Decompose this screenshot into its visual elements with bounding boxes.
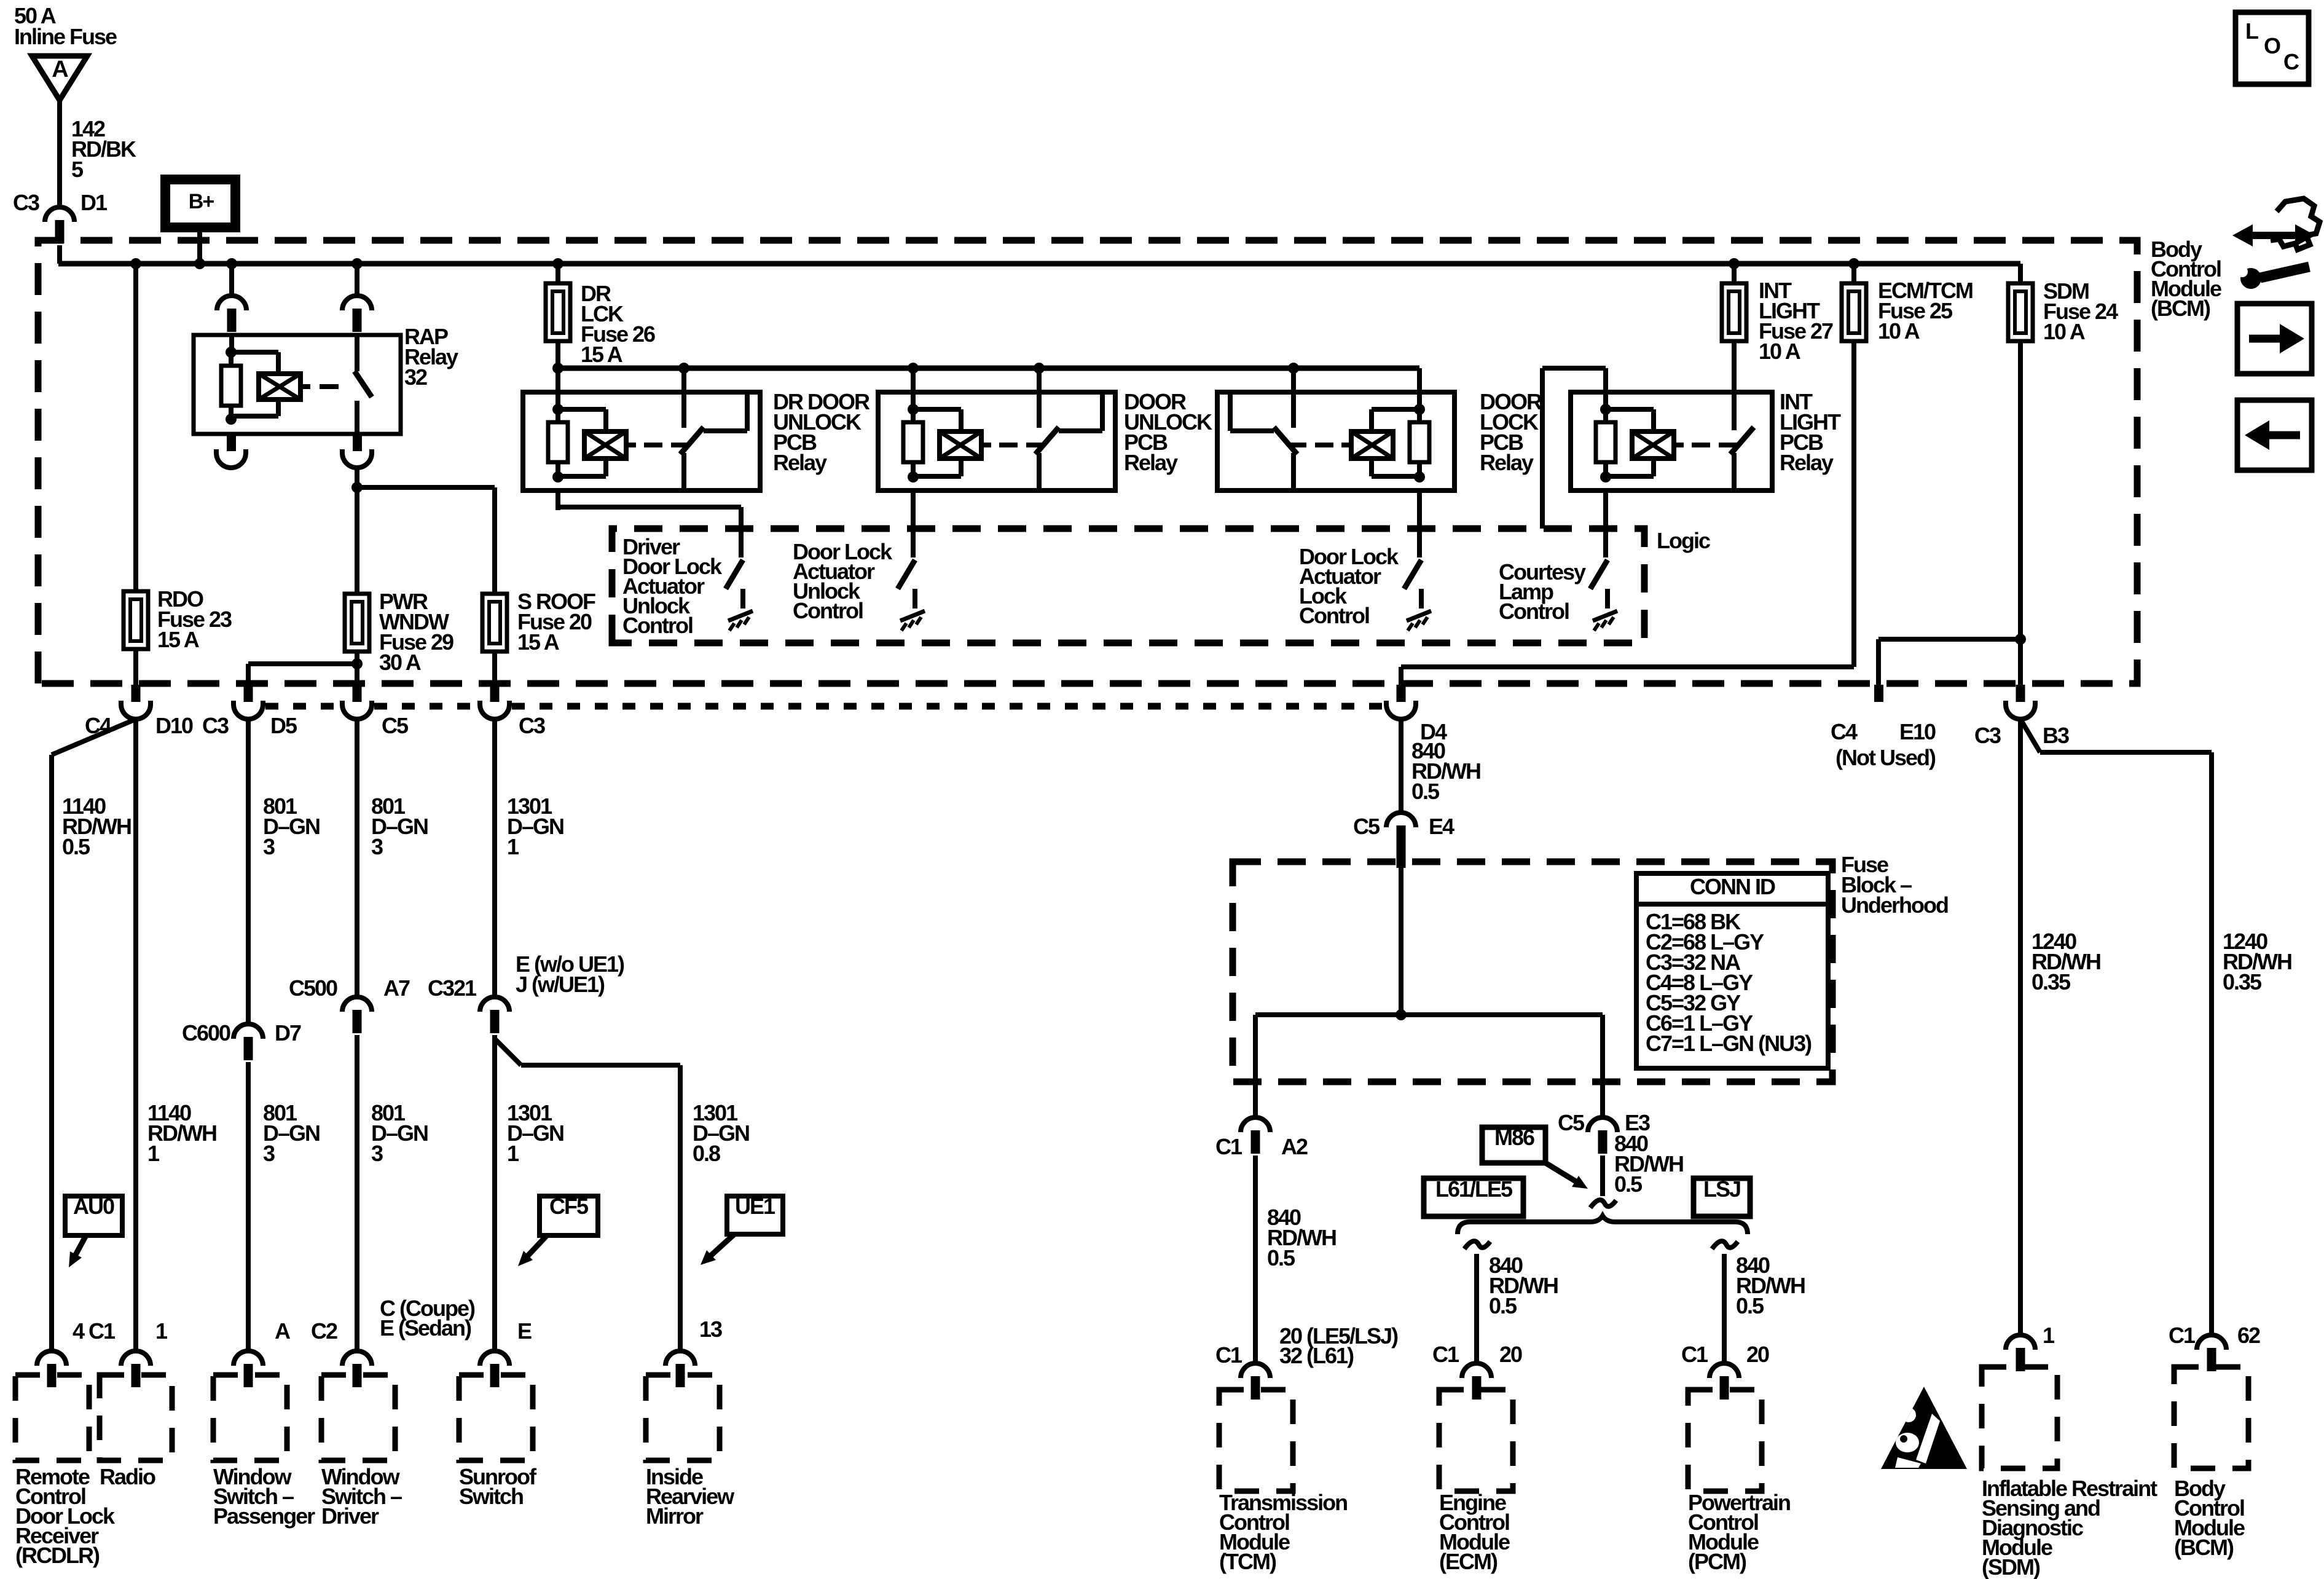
svg-text:Logic: Logic bbox=[1657, 528, 1710, 553]
svg-text:Passenger: Passenger bbox=[213, 1503, 315, 1529]
svg-text:C1: C1 bbox=[2169, 1323, 2196, 1348]
option AU0 bbox=[65, 1196, 122, 1235]
svg-text:E (Sedan): E (Sedan) bbox=[380, 1315, 471, 1341]
wire bus corner to fuse24 bbox=[2018, 264, 2023, 686]
wire window driver bbox=[355, 719, 359, 997]
module sunroof switch bbox=[480, 1351, 509, 1366]
svg-text:C500: C500 bbox=[289, 975, 337, 1001]
svg-text:0.5: 0.5 bbox=[62, 834, 90, 859]
fuse RDO 23 bbox=[124, 591, 148, 649]
wire fuse27 feed bbox=[1732, 264, 1737, 430]
relay DOOR UNLOCK PCB bbox=[878, 392, 1115, 490]
wire DR LCK feed bbox=[555, 264, 560, 368]
svg-text:D10: D10 bbox=[155, 713, 193, 738]
svg-text:E10: E10 bbox=[1899, 719, 1936, 744]
connector C3-D1 bbox=[45, 207, 74, 222]
svg-text:10 A: 10 A bbox=[2043, 319, 2086, 344]
svg-text:1: 1 bbox=[507, 1141, 519, 1166]
module ECM bbox=[1462, 1363, 1491, 1378]
wire relay4 coil feed U bbox=[1540, 368, 1545, 529]
brace split bbox=[1458, 1216, 1748, 1234]
svg-text:A7: A7 bbox=[383, 975, 410, 1001]
wire to ECM bbox=[1474, 1254, 1479, 1363]
wire to TCM bbox=[1253, 1156, 1258, 1363]
wire fused feed line bbox=[558, 366, 1419, 371]
svg-text:(BCM): (BCM) bbox=[2151, 296, 2210, 321]
svg-text:C600: C600 bbox=[182, 1020, 230, 1045]
svg-text:E: E bbox=[517, 1318, 532, 1344]
engine option L61/LE5 bbox=[1424, 1178, 1523, 1216]
wire E3 down bbox=[1600, 1156, 1605, 1196]
svg-text:13: 13 bbox=[699, 1317, 722, 1342]
BCM module dashed box bbox=[38, 240, 2137, 683]
svg-text:Underhood: Underhood bbox=[1841, 892, 1948, 918]
svg-text:L61/LE5: L61/LE5 bbox=[1435, 1176, 1513, 1202]
module RCDLR bbox=[37, 1351, 66, 1366]
svg-text:A: A bbox=[52, 57, 68, 82]
svg-text:Control: Control bbox=[1499, 599, 1569, 624]
svg-text:0.8: 0.8 bbox=[693, 1141, 720, 1166]
wire mirror branch bbox=[495, 1039, 521, 1065]
wire window passenger bbox=[246, 719, 251, 1024]
svg-text:(TCM): (TCM) bbox=[1219, 1549, 1276, 1574]
svg-text:C4: C4 bbox=[1831, 719, 1858, 744]
wire fuse25 out bbox=[1851, 264, 1856, 667]
node fuse block split bbox=[1396, 1009, 1407, 1020]
connector C5/E3 bbox=[1588, 1117, 1617, 1132]
connector D4 bbox=[1397, 685, 1406, 702]
wire PWR WNDW out bbox=[248, 661, 357, 666]
svg-text:C2: C2 bbox=[311, 1318, 337, 1344]
fuse DR LCK 26 bbox=[546, 283, 570, 341]
connector C1/A2 bbox=[1241, 1117, 1270, 1132]
module TCM bbox=[1241, 1363, 1270, 1378]
LOC reference box bbox=[2236, 12, 2309, 84]
svg-text:O: O bbox=[2264, 33, 2280, 58]
svg-text:B3: B3 bbox=[2043, 723, 2069, 748]
svg-text:62: 62 bbox=[2237, 1323, 2260, 1348]
junction dots fused line bbox=[552, 363, 563, 374]
svg-text:Switch: Switch bbox=[459, 1484, 523, 1509]
svg-text:C3: C3 bbox=[202, 713, 229, 738]
wire relay3 coil feed corner bbox=[1417, 368, 1422, 409]
wire into fuse block bbox=[1397, 826, 1406, 868]
svg-text:1: 1 bbox=[507, 834, 519, 859]
connector C5 window driver bbox=[353, 685, 362, 702]
wire to BCM bottom bbox=[2020, 719, 2040, 752]
fuse ECM/TCM 25 bbox=[1842, 283, 1866, 341]
svg-text:1: 1 bbox=[147, 1141, 160, 1166]
svg-text:Relay: Relay bbox=[1780, 450, 1834, 475]
engine option LSJ bbox=[1694, 1178, 1750, 1216]
svg-text:L: L bbox=[2245, 18, 2258, 44]
wire 142 RD/BK from fuse A bbox=[57, 100, 62, 205]
svg-text:10 A: 10 A bbox=[1878, 318, 1920, 344]
wire B+ stub bbox=[197, 227, 202, 264]
svg-text:Mirror: Mirror bbox=[646, 1503, 704, 1529]
svg-text:D1: D1 bbox=[80, 190, 108, 215]
svg-text:C1: C1 bbox=[1432, 1342, 1459, 1367]
wire sunroof lower bbox=[492, 1035, 497, 1351]
wire RDO feed bbox=[133, 264, 138, 685]
svg-text:(BCM): (BCM) bbox=[2174, 1535, 2234, 1560]
svg-text:C1: C1 bbox=[1681, 1342, 1708, 1367]
svg-text:CONN ID: CONN ID bbox=[1690, 874, 1775, 899]
RAP relay 32 box bbox=[194, 335, 401, 434]
RAP relay linkage bbox=[320, 384, 339, 389]
svg-text:0.35: 0.35 bbox=[2223, 969, 2262, 994]
svg-text:Radio: Radio bbox=[100, 1464, 155, 1489]
module BCM bottom bbox=[2197, 1335, 2226, 1350]
svg-text:A: A bbox=[275, 1318, 291, 1344]
splice M86 bbox=[1482, 1127, 1545, 1163]
svg-text:J (w/UE1): J (w/UE1) bbox=[516, 972, 605, 997]
module PCM bbox=[1710, 1363, 1739, 1378]
svg-text:C1: C1 bbox=[1215, 1342, 1242, 1368]
module inside rearview mirror bbox=[665, 1351, 695, 1366]
arrow next box bbox=[2237, 304, 2312, 374]
svg-text:(ECM): (ECM) bbox=[1439, 1549, 1498, 1574]
svg-text:Relay: Relay bbox=[1124, 450, 1178, 475]
logic switch courtesy bbox=[1590, 560, 1608, 589]
svg-text:C: C bbox=[2283, 49, 2299, 74]
module SDM bbox=[2006, 1335, 2035, 1350]
svg-text:20: 20 bbox=[1746, 1342, 1769, 1367]
svg-text:AU0: AU0 bbox=[73, 1194, 114, 1219]
Logic dashed box bbox=[612, 529, 1644, 643]
wire sunroof upper bbox=[492, 719, 497, 997]
wire break ECM branch bbox=[1464, 1241, 1490, 1249]
svg-text:(Not Used): (Not Used) bbox=[1835, 745, 1936, 770]
logic switch unlock bbox=[898, 560, 915, 589]
svg-text:15 A: 15 A bbox=[157, 627, 200, 652]
svg-text:C321: C321 bbox=[428, 975, 477, 1001]
logic switch driver unlock bbox=[726, 560, 743, 589]
svg-text:3: 3 bbox=[263, 1141, 275, 1166]
fuse INT LIGHT 27 bbox=[1722, 283, 1746, 341]
relay INT LIGHT PCB bbox=[1571, 392, 1772, 490]
svg-text:C7=1 L–GN (NU3): C7=1 L–GN (NU3) bbox=[1646, 1031, 1812, 1056]
svg-text:Control: Control bbox=[1299, 603, 1369, 628]
svg-text:LSJ: LSJ bbox=[1703, 1176, 1740, 1202]
svg-text:3: 3 bbox=[371, 1141, 383, 1166]
BCM connector face dotted line bbox=[265, 703, 340, 710]
fuse S ROOF 20 bbox=[482, 594, 507, 652]
svg-text:C3: C3 bbox=[13, 190, 39, 215]
svg-text:Relay: Relay bbox=[773, 450, 827, 475]
wire D4 to C5/E4 bbox=[1399, 719, 1403, 813]
svg-text:3: 3 bbox=[263, 834, 275, 859]
svg-text:(RCDLR): (RCDLR) bbox=[15, 1543, 100, 1568]
svg-text:32: 32 bbox=[404, 364, 427, 390]
svg-text:(PCM): (PCM) bbox=[1688, 1549, 1746, 1574]
wire RAP switch feed bbox=[355, 264, 359, 296]
svg-text:UE1: UE1 bbox=[735, 1194, 775, 1219]
svg-text:Control: Control bbox=[793, 598, 863, 623]
svg-text:3: 3 bbox=[371, 834, 383, 859]
B+ symbol bbox=[165, 179, 235, 227]
svg-text:C5: C5 bbox=[382, 713, 409, 738]
connector C600/D7 bbox=[234, 1024, 263, 1039]
svg-text:C1: C1 bbox=[1215, 1134, 1242, 1159]
RAP switch output pin bbox=[353, 435, 362, 451]
svg-text:0.35: 0.35 bbox=[2032, 969, 2071, 994]
svg-text:CF5: CF5 bbox=[549, 1194, 589, 1219]
svg-text:D7: D7 bbox=[275, 1020, 301, 1045]
svg-text:1: 1 bbox=[2043, 1323, 2055, 1348]
RAP coil return pin bbox=[227, 435, 236, 451]
svg-text:0.5: 0.5 bbox=[1489, 1293, 1517, 1318]
connector C3 sunroof bbox=[490, 685, 500, 702]
node RAP output split bbox=[351, 482, 363, 493]
connector C5/E4 bbox=[1386, 813, 1416, 827]
wire radio branch bbox=[133, 719, 138, 1351]
wire break E3 bbox=[1590, 1200, 1616, 1208]
svg-text:1: 1 bbox=[155, 1318, 168, 1344]
module window switch driver bbox=[342, 1351, 372, 1366]
workshop icon bbox=[2271, 199, 2320, 250]
svg-text:(SDM): (SDM) bbox=[1982, 1554, 2040, 1579]
pin E10 not used bbox=[1874, 685, 1883, 702]
svg-text:Control: Control bbox=[622, 613, 693, 638]
wire window driver lower bbox=[355, 1035, 359, 1351]
fuse SDM 24 bbox=[2008, 283, 2033, 341]
option UE1 bbox=[727, 1196, 783, 1234]
relay DR DOOR UNLOCK PCB bbox=[523, 392, 760, 490]
connector C500/A7 bbox=[342, 997, 372, 1012]
RAP relay coil resistor bbox=[226, 347, 237, 358]
RAP relay switch bbox=[355, 369, 359, 371]
svg-text:Relay: Relay bbox=[1480, 450, 1534, 475]
svg-text:20: 20 bbox=[1499, 1342, 1522, 1367]
svg-text:E4: E4 bbox=[1429, 814, 1454, 839]
svg-text:C5: C5 bbox=[1353, 814, 1380, 839]
junction dots on bus bbox=[130, 258, 141, 269]
option CF5 bbox=[540, 1196, 598, 1235]
svg-text:0.5: 0.5 bbox=[1736, 1293, 1764, 1318]
svg-text:0.5: 0.5 bbox=[1267, 1245, 1295, 1270]
svg-text:M86: M86 bbox=[1494, 1125, 1534, 1150]
svg-text:D5: D5 bbox=[270, 713, 297, 738]
svg-text:15 A: 15 A bbox=[581, 342, 623, 367]
connector C4/D10 bbox=[132, 685, 141, 702]
fuse PWR WNDW 29 bbox=[345, 594, 369, 652]
svg-text:Inline Fuse: Inline Fuse bbox=[14, 24, 117, 49]
relay DOOR LOCK PCB bbox=[1217, 392, 1454, 490]
wire relay1 coil return to logic bbox=[558, 505, 741, 510]
svg-text:Driver: Driver bbox=[321, 1503, 379, 1529]
svg-text:B+: B+ bbox=[189, 190, 214, 213]
fuse block underhood dashed box bbox=[1233, 862, 1832, 1082]
wire RCDLR branch bbox=[52, 719, 136, 755]
connector C3/D5 bbox=[244, 685, 253, 702]
svg-text:0.5: 0.5 bbox=[1614, 1171, 1643, 1197]
CONN ID table bbox=[1636, 873, 1828, 1068]
connector RAP coil pin bbox=[217, 296, 246, 310]
RAP relay coil bbox=[231, 350, 278, 355]
svg-text:32 (L61): 32 (L61) bbox=[1279, 1343, 1354, 1368]
svg-text:10 A: 10 A bbox=[1759, 339, 1801, 364]
svg-text:15 A: 15 A bbox=[517, 629, 560, 655]
fuse A triangle symbol bbox=[32, 56, 87, 100]
node fuse24 split bbox=[2015, 634, 2026, 645]
wire to SDM bbox=[2018, 719, 2023, 1335]
arrow back box bbox=[2237, 400, 2312, 470]
wire B+ bus bbox=[58, 261, 2020, 267]
svg-text:5: 5 bbox=[71, 157, 84, 182]
wire window passenger lower bbox=[246, 1062, 251, 1351]
connector C3/B3 bbox=[2016, 685, 2025, 702]
logic switch lock bbox=[1404, 560, 1421, 589]
svg-text:4 C1: 4 C1 bbox=[73, 1318, 116, 1344]
connector RAP switch pin bbox=[342, 296, 372, 310]
wire RAP coil feed bbox=[229, 264, 234, 296]
module window switch passenger bbox=[234, 1351, 263, 1366]
svg-text:C3: C3 bbox=[1974, 723, 2001, 748]
wire break PCM branch bbox=[1712, 1241, 1738, 1249]
svg-text:C5: C5 bbox=[1558, 1110, 1585, 1135]
svg-text:0.5: 0.5 bbox=[1411, 779, 1440, 804]
svg-text:A2: A2 bbox=[1281, 1134, 1308, 1159]
module Radio bbox=[121, 1351, 151, 1366]
connector C321 bbox=[480, 997, 509, 1012]
svg-text:C3: C3 bbox=[519, 713, 545, 738]
wire to PCM bbox=[1722, 1254, 1727, 1363]
svg-text:30 A: 30 A bbox=[379, 650, 422, 675]
